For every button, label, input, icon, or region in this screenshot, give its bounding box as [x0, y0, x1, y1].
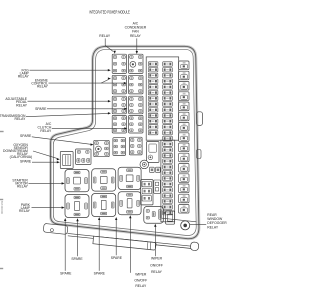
relay R7	[112, 115, 126, 133]
fuse FB8	[163, 102, 173, 106]
fuse FB12	[163, 125, 173, 129]
wire: spare B1 pointer	[64, 221, 66, 271]
mounting stud	[140, 160, 149, 169]
fuse FB10	[163, 113, 173, 117]
wire: spare relay 3 pointer	[32, 161, 57, 163]
relay RB (spare)	[76, 149, 91, 164]
fuse FA11	[148, 119, 158, 123]
fuse FB2	[163, 68, 173, 72]
wire: engine control relay pointer	[49, 82, 125, 84]
bracket left foot	[43, 223, 68, 234]
relay R5	[112, 96, 126, 114]
maxi fuse M5	[179, 102, 189, 111]
wire: spare relay 1 pointer	[47, 108, 125, 110]
relay R3	[112, 75, 126, 94]
fuse FB4	[163, 79, 173, 83]
svg-text:RELAY: RELAY	[207, 225, 219, 229]
fuse FB18	[163, 159, 173, 163]
maxi fuse M12	[179, 174, 189, 183]
wire: a/c clutch relay pointer	[52, 127, 125, 129]
fuse FB26	[163, 205, 173, 209]
wire: spare B2 pointer	[98, 220, 100, 271]
svg-text:RELAY: RELAY	[99, 34, 111, 38]
bottom bracket band	[68, 233, 192, 246]
fuse FA12	[148, 125, 158, 129]
module body outline band	[51, 46, 199, 238]
fuse FA2	[148, 68, 158, 72]
relay R4	[129, 75, 143, 94]
svg-text:SPARE: SPARE	[20, 159, 32, 163]
maxi fuse M2	[179, 71, 189, 80]
maxi fuse M6	[179, 112, 189, 121]
svg-text:SPARE: SPARE	[94, 272, 106, 276]
right edge tab upper	[197, 112, 203, 126]
fuse FB27	[163, 211, 173, 215]
fuse FB1	[163, 62, 173, 66]
fuse FA3	[148, 73, 158, 77]
svg-text:WIPER: WIPER	[151, 257, 163, 261]
relay R1	[112, 54, 126, 73]
fuse FB5	[163, 85, 173, 89]
fuse FA7	[148, 96, 158, 100]
wire: starter motor relay pointer	[29, 182, 63, 184]
fuse slot 2	[142, 188, 151, 193]
svg-text:RELAY: RELAY	[40, 129, 52, 133]
fuse FA5	[148, 85, 158, 89]
svg-text:RELAY: RELAY	[15, 117, 27, 121]
wire: relay (top left) pointer	[105, 38, 113, 51]
wire: park lamp relay pointer	[32, 207, 63, 209]
fuse FB9	[163, 108, 173, 112]
fuse FB11	[163, 119, 173, 123]
relay RC2	[92, 169, 116, 191]
fuse FB25	[163, 199, 173, 203]
svg-text:RELAY: RELAY	[151, 270, 163, 274]
fuse block container upper	[146, 57, 179, 140]
fuse block container lower	[161, 140, 175, 222]
fuse FB20	[163, 171, 173, 175]
svg-text:RELAY: RELAY	[17, 185, 29, 189]
module inner wall	[53, 49, 196, 235]
svg-text:SPARE: SPARE	[71, 257, 83, 261]
fuse FB17	[163, 153, 173, 157]
maxi fuse M11	[179, 164, 189, 173]
relay R6	[129, 96, 143, 114]
right edge tab lower	[197, 150, 201, 159]
fuse FB24	[163, 193, 173, 197]
relay R10	[113, 138, 126, 156]
wire: wiper on/off relay A3 pointer	[154, 226, 156, 256]
mini fuse box	[154, 180, 161, 193]
svg-text:SPARE: SPARE	[60, 272, 72, 276]
maxi fuse M10	[179, 153, 189, 162]
svg-text:WIPER: WIPER	[135, 273, 147, 277]
relay RC1	[65, 170, 89, 192]
maxi fuse M1	[179, 61, 189, 70]
fuse FB3	[163, 73, 173, 77]
wire: fog lamp relay pointer	[30, 69, 109, 71]
wire: transmission relay pointer	[26, 113, 108, 116]
svg-text:ON/OFF: ON/OFF	[150, 263, 163, 267]
wire: adjustable pedal relay pointer	[28, 100, 109, 102]
fuse FB21	[163, 176, 173, 180]
fuse FB7	[163, 96, 173, 100]
wire: spare A2 pointer	[115, 220, 117, 256]
svg-text:RELAY: RELAY	[19, 209, 31, 213]
relay R9 (circle)	[94, 140, 109, 156]
fuse FA6	[148, 90, 158, 94]
relay RD2	[92, 194, 116, 217]
fuse FA10	[148, 113, 158, 117]
maxi fuse M3	[179, 82, 189, 91]
fuse holder with indicator circle	[147, 142, 160, 163]
spare mini fuse pair	[150, 167, 155, 172]
fuse slot 1	[142, 181, 151, 186]
maxi fuse M14	[179, 194, 189, 203]
svg-text:SPARE: SPARE	[111, 256, 123, 260]
fuse FB22	[163, 182, 173, 186]
fuse FA1	[148, 62, 158, 66]
relay RD1	[65, 195, 89, 218]
relay R11	[129, 137, 142, 155]
fuse bay floor line	[162, 218, 197, 222]
relay RE (wiper on/off)	[144, 207, 164, 224]
svg-text:RELAY: RELAY	[130, 34, 142, 38]
small fuse slot container	[141, 180, 153, 205]
wire: oxygen sensor relay pointer	[33, 151, 57, 158]
scan artifact marks	[0, 131, 4, 132]
fuse FB19	[163, 165, 173, 169]
fuse FB15	[163, 142, 173, 146]
maxi fuse M9	[179, 143, 189, 152]
fuse FB13	[163, 130, 173, 134]
wire: spare A1 pointer	[77, 221, 79, 256]
fuse FB6	[163, 90, 173, 94]
svg-text:SPARE: SPARE	[20, 134, 32, 138]
fuse FA4	[148, 79, 158, 83]
relay R8	[129, 115, 143, 133]
fuse slot 3	[142, 196, 151, 201]
fuse FB14	[163, 136, 173, 140]
maxi fuse M8	[179, 133, 189, 142]
wire: wiper on/off relay B3 pointer	[129, 218, 131, 273]
svg-text:RELAY: RELAY	[18, 75, 30, 79]
fuse FA13	[148, 130, 158, 134]
svg-text:00000369: 00000369	[0, 200, 4, 214]
wire: a/c condenser fan relay pointer	[136, 38, 138, 51]
tall fuse (bottom right)	[166, 211, 175, 224]
wire: spare relay 2 pointer	[32, 137, 91, 145]
rear window defogger relay circle	[181, 221, 190, 230]
maxi fuse M4	[179, 92, 189, 101]
fuse FA9	[148, 108, 158, 112]
maxi fuse M7	[179, 123, 189, 132]
relay RC3	[118, 167, 141, 189]
wire: rear window defogger pointer	[190, 224, 206, 226]
svg-text:RELAY: RELAY	[135, 284, 147, 288]
bottom connector block	[93, 236, 156, 250]
maxi fuse M15	[179, 205, 189, 214]
svg-text:RELAY: RELAY	[37, 85, 49, 89]
svg-text:ON/OFF: ON/OFF	[134, 278, 147, 282]
bracket right end cap	[190, 242, 199, 251]
fuse FA8	[148, 102, 158, 106]
svg-text:RELAY: RELAY	[16, 104, 28, 108]
relay R2 with circle	[129, 54, 143, 73]
relay RD3	[118, 192, 141, 215]
fuse FB16	[163, 148, 173, 152]
relay RA (oxygen sensor downstream)	[60, 152, 73, 169]
fuse FB23	[163, 188, 173, 192]
svg-text:SPARE: SPARE	[35, 107, 47, 111]
svg-text:INTEGRATED POWER MODULE: INTEGRATED POWER MODULE	[89, 9, 130, 14]
maxi fuse M13	[179, 184, 189, 193]
